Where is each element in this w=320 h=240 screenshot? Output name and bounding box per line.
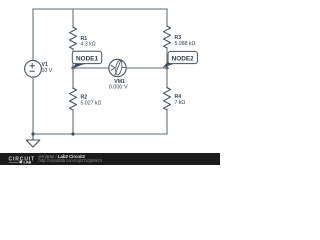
wire top horizontal	[33, 8, 167, 10]
svg-text:NODE2: NODE2	[172, 55, 194, 62]
wire left vertical lower	[32, 77, 34, 134]
voltage source V1	[25, 60, 53, 77]
wire middle vertical (R1 to node)	[72, 49, 74, 69]
ground	[26, 134, 40, 147]
svg-text:5.988 kΩ: 5.988 kΩ	[175, 41, 196, 47]
junction dot bottom-middle	[71, 132, 74, 135]
svg-text:NODE1: NODE1	[76, 55, 98, 62]
wire right vertical (node to R4)	[166, 68, 168, 88]
svg-text:5.027 kΩ: 5.027 kΩ	[81, 100, 102, 106]
svg-text:R3: R3	[175, 35, 182, 41]
wire right vertical (R3 to node)	[166, 48, 168, 69]
wire middle vertical top	[72, 9, 74, 28]
wire right vertical top	[166, 9, 168, 27]
wire middle vertical bottom	[72, 110, 74, 135]
resistor R3	[164, 26, 196, 48]
svg-text:10 V: 10 V	[42, 68, 53, 74]
resistor R1	[70, 27, 96, 49]
svg-text:http://circuitlab.com/cxpz7u2j: http://circuitlab.com/cxpz7u2j56kzh	[39, 158, 103, 163]
junction dot NODE1	[71, 66, 74, 69]
svg-text:7 kΩ: 7 kΩ	[175, 100, 186, 106]
watermark bar	[0, 153, 220, 165]
svg-text:0.000 V: 0.000 V	[109, 84, 128, 90]
svg-text:4.3 kΩ: 4.3 kΩ	[81, 42, 96, 48]
wire middle horizontal right (VM1 to NODE2)	[126, 67, 167, 69]
resistor R2	[70, 88, 102, 110]
wire right vertical bottom	[166, 109, 168, 134]
wire bottom horizontal	[33, 133, 167, 135]
resistor R4	[164, 88, 186, 111]
junction dot NODE2	[165, 66, 168, 69]
wire middle horizontal left (node to VM1)	[73, 67, 109, 69]
wire middle vertical (node to R2)	[72, 68, 74, 89]
svg-text:LAB: LAB	[24, 160, 32, 164]
wire left vertical upper	[32, 9, 34, 60]
node NODE1 flag	[72, 51, 101, 68]
junction dot bottom-left	[31, 132, 34, 135]
node NODE2 flag	[162, 51, 197, 67]
voltmeter VM1	[109, 59, 128, 90]
